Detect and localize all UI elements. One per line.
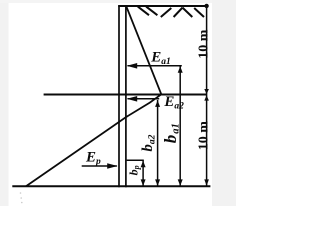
lower 10m bottom arrowhead xyxy=(204,179,209,186)
svg-text:10 m: 10 m xyxy=(196,29,211,59)
b_p top arrowhead xyxy=(141,161,146,168)
b_a2 bottom arrowhead xyxy=(155,179,160,186)
force E_a2 arrowhead xyxy=(127,96,137,102)
dimension line b_p xyxy=(142,160,144,186)
b_a1 bottom arrowhead xyxy=(178,179,183,186)
ground hatch stroke 2 xyxy=(146,7,157,16)
force E_p arrow line xyxy=(82,165,117,167)
sheet-pile wall right face xyxy=(125,5,127,187)
ground surface line (top) xyxy=(118,5,207,7)
ground hatch stroke 6 xyxy=(194,8,204,17)
upper 10m bottom arrowhead xyxy=(204,89,209,94)
top margin strip xyxy=(0,0,236,3)
dimension line 10m (full) xyxy=(206,6,208,186)
ground hatch stroke 5 xyxy=(183,8,193,17)
sheet-pile wall left face xyxy=(118,5,120,187)
b_p bottom arrowhead xyxy=(141,179,146,186)
net passive diagonal xyxy=(26,94,161,186)
dot at ground / dimension corner xyxy=(204,4,208,8)
b_a2 top arrowhead xyxy=(155,100,160,107)
b_p extension tick xyxy=(127,159,144,161)
ground hatch stroke 1 xyxy=(138,7,149,16)
dredge level line xyxy=(44,94,207,96)
dimension line b_a2 xyxy=(157,100,159,186)
force E_a1 arrowhead xyxy=(127,63,137,69)
active pressure diagonal xyxy=(126,6,161,94)
force E_a1 arrow line xyxy=(128,65,182,67)
left margin strip xyxy=(0,0,9,206)
b_a1 top arrowhead xyxy=(178,66,183,73)
faint dotted trace below base line xyxy=(20,192,22,194)
ground hatch stroke 3 xyxy=(161,8,172,17)
base line xyxy=(12,185,210,187)
force E_p arrowhead xyxy=(107,163,117,169)
right margin strip xyxy=(212,0,236,206)
svg-text:10 m: 10 m xyxy=(196,121,211,151)
force E_a2 arrow line xyxy=(128,98,160,100)
dimension line b_a1 xyxy=(179,66,181,187)
ground hatch stroke 4 xyxy=(174,8,183,17)
lower 10m top arrowhead xyxy=(204,95,209,100)
